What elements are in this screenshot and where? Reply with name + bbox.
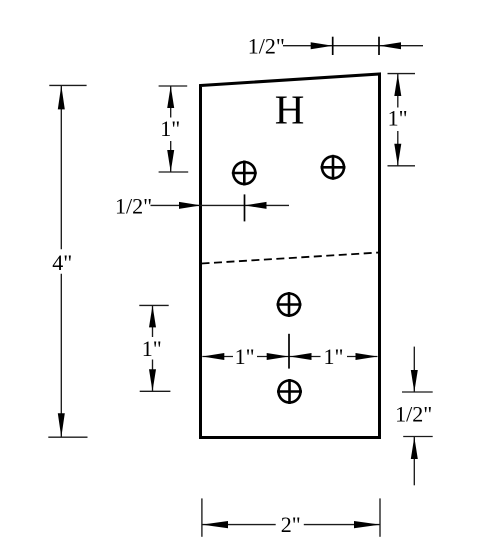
svg-text:1": 1" — [142, 336, 162, 361]
hole H3 — [277, 292, 302, 317]
svg-text:2": 2" — [281, 512, 301, 537]
dimension inner 1" + 1" — [202, 334, 377, 369]
dimension right 1" — [388, 74, 416, 166]
svg-text:H: H — [275, 87, 305, 133]
hole H2 — [321, 155, 346, 180]
dimension top 1/2" — [248, 34, 423, 59]
hole H4 — [277, 379, 302, 404]
bend dashed line — [202, 253, 380, 264]
dimension left-bottom 1" — [139, 305, 170, 391]
svg-text:1": 1" — [388, 105, 408, 130]
dimension bottom-right 1/2" — [395, 347, 433, 486]
svg-text:1/2": 1/2" — [395, 401, 432, 426]
plate outline — [201, 74, 380, 438]
dimension mid-left 1/2" — [115, 194, 289, 222]
svg-text:1": 1" — [160, 116, 180, 141]
svg-text:1": 1" — [324, 344, 344, 369]
hole H1 — [232, 161, 257, 186]
svg-text:1": 1" — [235, 344, 255, 369]
dimension bottom 2" — [202, 498, 380, 537]
dimension left-top 1" — [159, 86, 189, 172]
svg-text:1/2": 1/2" — [248, 34, 285, 59]
svg-text:4": 4" — [52, 250, 72, 275]
dimension left 4" — [48, 85, 87, 437]
svg-text:1/2": 1/2" — [115, 194, 152, 219]
